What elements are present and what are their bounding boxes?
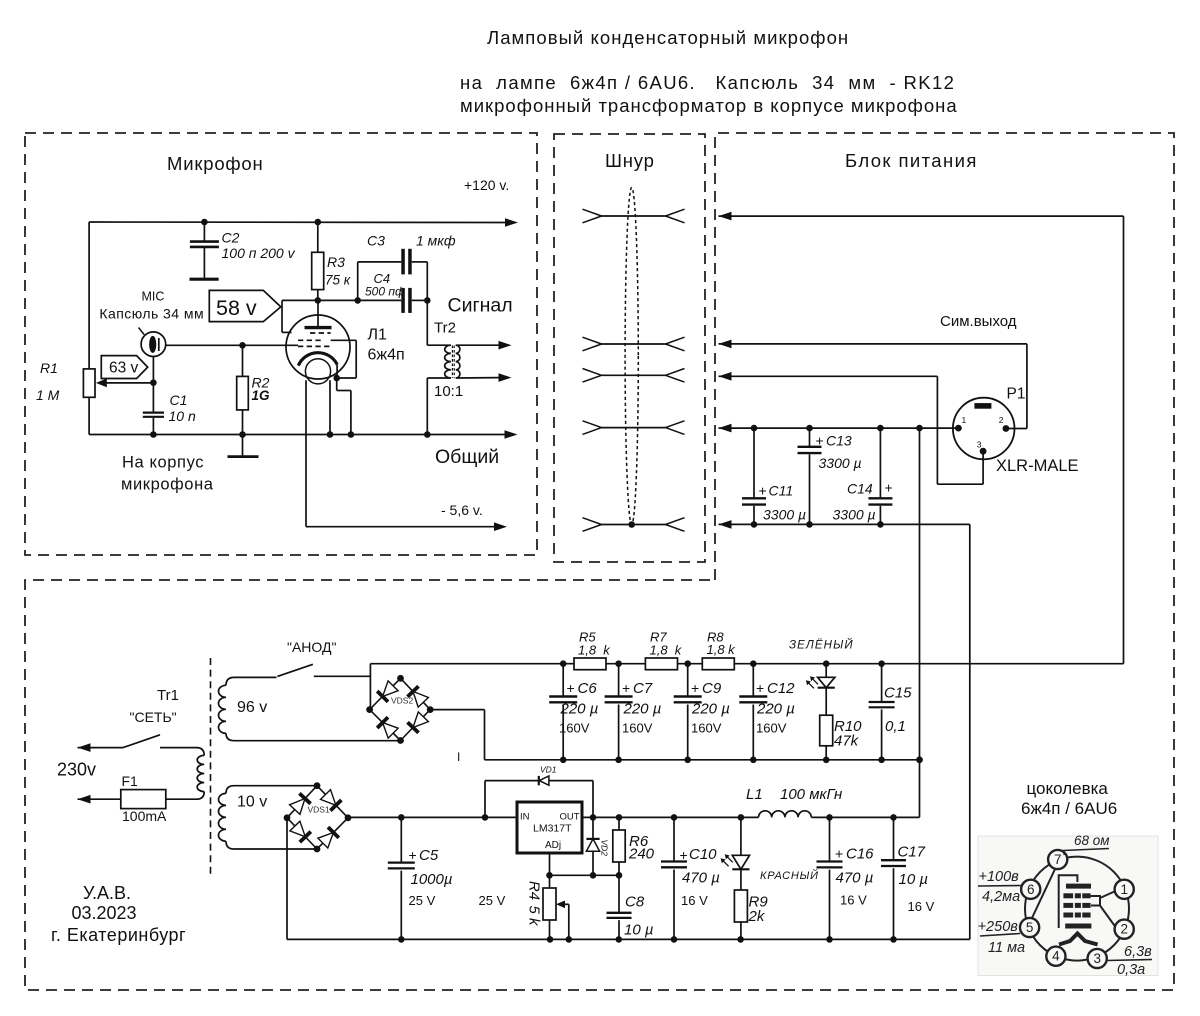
svg-text:Шнур: Шнур <box>605 150 655 171</box>
svg-text:10 n: 10 n <box>169 408 196 424</box>
svg-text:R4: R4 <box>526 881 543 900</box>
svg-text:3: 3 <box>1093 951 1101 966</box>
svg-text:220 µ: 220 µ <box>560 701 599 718</box>
svg-text:R1: R1 <box>40 360 58 376</box>
svg-text:на лампе 6ж4п / 6AU6. Капс: на лампе 6ж4п / 6AU6. Капсюль 34 мм - RK… <box>460 72 955 93</box>
svg-text:58 v: 58 v <box>216 296 257 320</box>
svg-text:Tr1: Tr1 <box>157 687 179 704</box>
svg-text:+: + <box>835 846 843 862</box>
svg-text:3: 3 <box>977 440 982 450</box>
svg-text:03.2023: 03.2023 <box>72 903 137 923</box>
svg-text:100mA: 100mA <box>122 808 167 824</box>
svg-text:+: + <box>567 680 575 696</box>
svg-text:VD2: VD2 <box>600 840 610 857</box>
svg-text:+: + <box>759 483 767 499</box>
svg-text:C6: C6 <box>578 680 598 697</box>
svg-text:2: 2 <box>999 415 1004 425</box>
svg-text:10 µ: 10 µ <box>624 922 654 939</box>
svg-text:240: 240 <box>628 846 655 863</box>
svg-text:C7: C7 <box>633 680 653 697</box>
svg-text:OUT: OUT <box>559 812 579 823</box>
svg-text:C9: C9 <box>702 680 722 697</box>
svg-text:C16: C16 <box>846 846 874 863</box>
svg-text:1 M: 1 M <box>36 387 60 403</box>
svg-text:C2: C2 <box>222 230 240 246</box>
svg-text:VD1: VD1 <box>540 765 557 775</box>
svg-text:100 п 200 v: 100 п 200 v <box>222 245 296 261</box>
svg-text:Сигнал: Сигнал <box>448 295 513 317</box>
svg-text:- 5,6 v.: - 5,6 v. <box>441 502 483 518</box>
svg-text:+: + <box>885 480 893 496</box>
svg-text:500 пф: 500 пф <box>365 285 405 299</box>
svg-text:+: + <box>816 433 824 449</box>
svg-text:230v: 230v <box>57 760 96 780</box>
svg-text:+100в: +100в <box>979 869 1020 885</box>
svg-text:"СЕТЬ": "СЕТЬ" <box>130 709 177 725</box>
svg-text:C3: C3 <box>367 233 385 249</box>
svg-text:F1: F1 <box>122 773 139 789</box>
svg-text:P1: P1 <box>1007 386 1026 403</box>
svg-text:Общий: Общий <box>435 446 499 468</box>
svg-text:C14: C14 <box>847 481 873 497</box>
svg-text:2k: 2k <box>748 908 766 925</box>
svg-text:IN: IN <box>520 812 530 823</box>
svg-text:100 мкГн: 100 мкГн <box>780 786 842 803</box>
svg-text:5: 5 <box>1026 920 1034 935</box>
svg-text:MIC: MIC <box>142 290 165 304</box>
svg-text:VDS2: VDS2 <box>391 696 413 706</box>
svg-text:220 µ: 220 µ <box>691 701 730 718</box>
svg-text:C12: C12 <box>767 680 795 697</box>
svg-text:220 µ: 220 µ <box>623 701 662 718</box>
svg-text:ADj: ADj <box>545 840 561 851</box>
svg-text:C17: C17 <box>898 844 926 861</box>
svg-text:+250в: +250в <box>978 919 1019 935</box>
svg-text:220 µ: 220 µ <box>756 701 795 718</box>
svg-text:160V: 160V <box>756 721 787 736</box>
svg-text:4: 4 <box>1052 949 1060 964</box>
svg-text:10 µ: 10 µ <box>899 871 929 888</box>
svg-text:+: + <box>691 680 699 696</box>
svg-text:96 v: 96 v <box>237 699 267 716</box>
svg-text:75 к: 75 к <box>325 273 351 288</box>
svg-text:3300 µ: 3300 µ <box>763 507 806 523</box>
svg-text:C15: C15 <box>884 685 912 702</box>
svg-text:3300 µ: 3300 µ <box>819 455 862 471</box>
svg-text:160V: 160V <box>559 721 590 736</box>
svg-text:6ж4п: 6ж4п <box>368 347 405 364</box>
svg-text:6,3в: 6,3в <box>1124 944 1152 960</box>
svg-text:Капсюль 34 мм: Капсюль 34 мм <box>99 306 204 322</box>
svg-text:2: 2 <box>1120 922 1128 937</box>
svg-text:Блок питания: Блок питания <box>845 150 978 171</box>
svg-text:6: 6 <box>1027 882 1035 897</box>
svg-text:6ж4п / 6AU6: 6ж4п / 6AU6 <box>1021 799 1117 818</box>
svg-text:Микрофон: Микрофон <box>167 153 264 174</box>
svg-text:+: + <box>622 680 630 696</box>
svg-text:3300 µ: 3300 µ <box>833 507 876 523</box>
svg-text:16 V: 16 V <box>681 893 708 908</box>
svg-text:1000µ: 1000µ <box>411 871 453 888</box>
svg-text:L1: L1 <box>746 786 763 803</box>
svg-text:C10: C10 <box>689 846 717 863</box>
svg-text:+120 v.: +120 v. <box>464 177 509 193</box>
svg-text:1,8 k: 1,8 k <box>650 643 683 658</box>
svg-text:7: 7 <box>1054 852 1062 867</box>
svg-text:C13: C13 <box>826 433 852 449</box>
svg-text:микрофона: микрофона <box>121 476 214 494</box>
svg-text:25 V: 25 V <box>479 893 506 908</box>
svg-text:Ламповый конденсаторный микроф: Ламповый конденсаторный микрофон <box>487 27 849 48</box>
svg-text:1G: 1G <box>252 388 271 403</box>
svg-text:КРАСНЫЙ: КРАСНЫЙ <box>760 869 819 882</box>
svg-text:Сим.выход: Сим.выход <box>940 313 1017 330</box>
svg-text:C11: C11 <box>769 483 794 499</box>
svg-text:63 v: 63 v <box>109 360 139 377</box>
svg-text:ЗЕЛЁНЫЙ: ЗЕЛЁНЫЙ <box>789 639 854 652</box>
svg-text:I: I <box>457 750 460 764</box>
svg-text:1: 1 <box>1120 882 1128 897</box>
svg-text:1: 1 <box>962 415 967 425</box>
svg-text:На корпус: На корпус <box>122 454 204 472</box>
svg-text:160V: 160V <box>622 721 653 736</box>
svg-text:160V: 160V <box>691 721 722 736</box>
svg-text:Л1: Л1 <box>368 327 388 344</box>
svg-text:16 V: 16 V <box>840 893 867 908</box>
svg-text:10 v: 10 v <box>237 794 267 811</box>
svg-text:47k: 47k <box>834 733 860 750</box>
svg-text:1 мкф: 1 мкф <box>416 233 456 249</box>
svg-text:68 ом: 68 ом <box>1074 833 1110 848</box>
svg-text:4,2ма: 4,2ма <box>982 889 1020 905</box>
svg-text:25 V: 25 V <box>409 893 436 908</box>
svg-text:XLR-MALE: XLR-MALE <box>996 457 1079 475</box>
svg-text:микрофонный трансформатор в ко: микрофонный трансформатор в корпусе микр… <box>460 95 958 116</box>
svg-text:+: + <box>756 680 764 696</box>
svg-text:C5: C5 <box>419 847 439 864</box>
svg-text:16 V: 16 V <box>908 899 935 914</box>
svg-text:+: + <box>409 847 417 863</box>
svg-text:470 µ: 470 µ <box>682 870 720 887</box>
svg-text:1,8 k: 1,8 k <box>578 643 611 658</box>
svg-text:C8: C8 <box>625 894 645 911</box>
svg-text:C1: C1 <box>170 392 188 408</box>
svg-text:1,8 k: 1,8 k <box>707 642 737 657</box>
svg-text:У.А.В.: У.А.В. <box>83 883 131 903</box>
svg-text:"АНОД": "АНОД" <box>287 639 336 655</box>
svg-text:+: + <box>680 847 688 863</box>
svg-text:R3: R3 <box>327 254 345 270</box>
svg-text:0,3а: 0,3а <box>1117 962 1145 978</box>
svg-text:10:1: 10:1 <box>434 383 463 400</box>
svg-text:VDS1: VDS1 <box>308 805 330 815</box>
svg-text:LM317T: LM317T <box>533 823 572 835</box>
svg-text:Tr2: Tr2 <box>434 320 456 337</box>
svg-text:0,1: 0,1 <box>885 718 906 735</box>
svg-text:цоколевка: цоколевка <box>1027 779 1109 798</box>
svg-text:г. Екатеринбург: г. Екатеринбург <box>51 925 186 945</box>
svg-text:5 k: 5 k <box>526 905 543 927</box>
svg-text:470 µ: 470 µ <box>836 870 874 887</box>
svg-text:11 ма: 11 ма <box>988 940 1025 956</box>
